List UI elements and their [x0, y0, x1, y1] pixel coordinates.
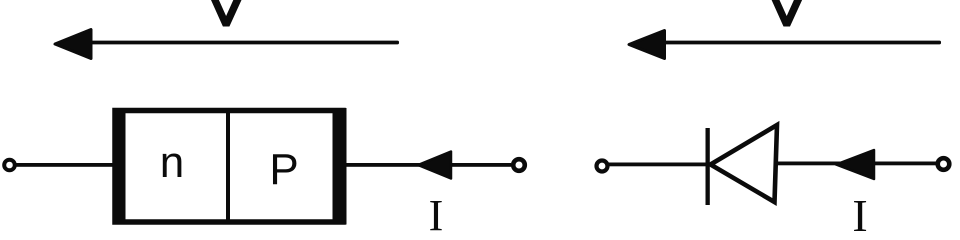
current arrow I (left circuit): [418, 152, 451, 179]
label V (right voltage): [772, 0, 803, 27]
pn junction block body (outline): [115, 111, 343, 223]
wire left lead of pn block: [14, 163, 114, 167]
voltage arrow V left (arrowhead): [55, 30, 91, 59]
diode triangle (anode): [711, 125, 778, 202]
wire right lead of diode: [776, 162, 938, 166]
pn junction metal contact (left bar): [113, 108, 126, 225]
svg-text:I: I: [429, 191, 444, 238]
terminal node left circuit, left: [4, 160, 15, 171]
svg-text:I: I: [852, 190, 867, 238]
voltage arrow V right (arrowhead): [629, 31, 665, 59]
label V (left voltage): [211, 0, 242, 27]
wire right lead of pn block: [345, 163, 511, 167]
svg-text:P: P: [269, 145, 298, 194]
terminal node right circuit, right: [938, 158, 950, 170]
pn junction metal contact (right bar): [333, 108, 347, 225]
current arrow I (right circuit): [836, 150, 874, 179]
diode cathode bar: [706, 128, 710, 205]
svg-text:n: n: [160, 138, 184, 187]
wire left lead of diode: [608, 163, 712, 167]
voltage arrow V left (wire): [85, 41, 399, 45]
terminal node left circuit, right: [513, 159, 525, 171]
pn junction divider: [226, 110, 230, 222]
voltage arrow V right (wire): [660, 41, 941, 45]
terminal node right circuit, left: [597, 161, 608, 172]
